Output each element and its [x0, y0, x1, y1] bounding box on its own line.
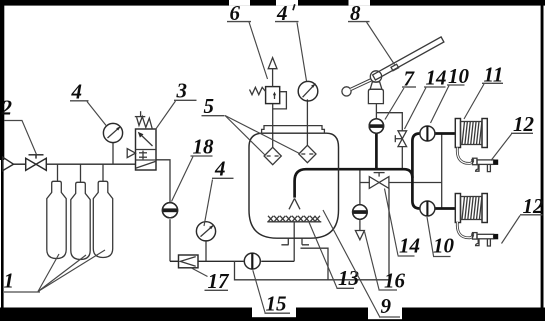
svg-text:10: 10 [433, 234, 455, 258]
svg-text:17: 17 [208, 269, 231, 293]
svg-text:13: 13 [338, 266, 359, 290]
svg-text:1: 1 [4, 269, 15, 293]
svg-text:4: 4 [214, 157, 226, 181]
svg-text:14: 14 [399, 234, 420, 258]
svg-text:9: 9 [381, 294, 392, 318]
svg-text:18: 18 [193, 135, 215, 159]
svg-text:16: 16 [384, 269, 406, 293]
svg-text:2: 2 [1, 96, 13, 120]
svg-text:4: 4 [71, 80, 83, 104]
svg-text:15: 15 [266, 292, 287, 316]
svg-text:5: 5 [204, 94, 215, 118]
svg-text:12: 12 [513, 112, 535, 136]
svg-text:14: 14 [426, 66, 447, 90]
svg-text:3: 3 [176, 79, 188, 103]
